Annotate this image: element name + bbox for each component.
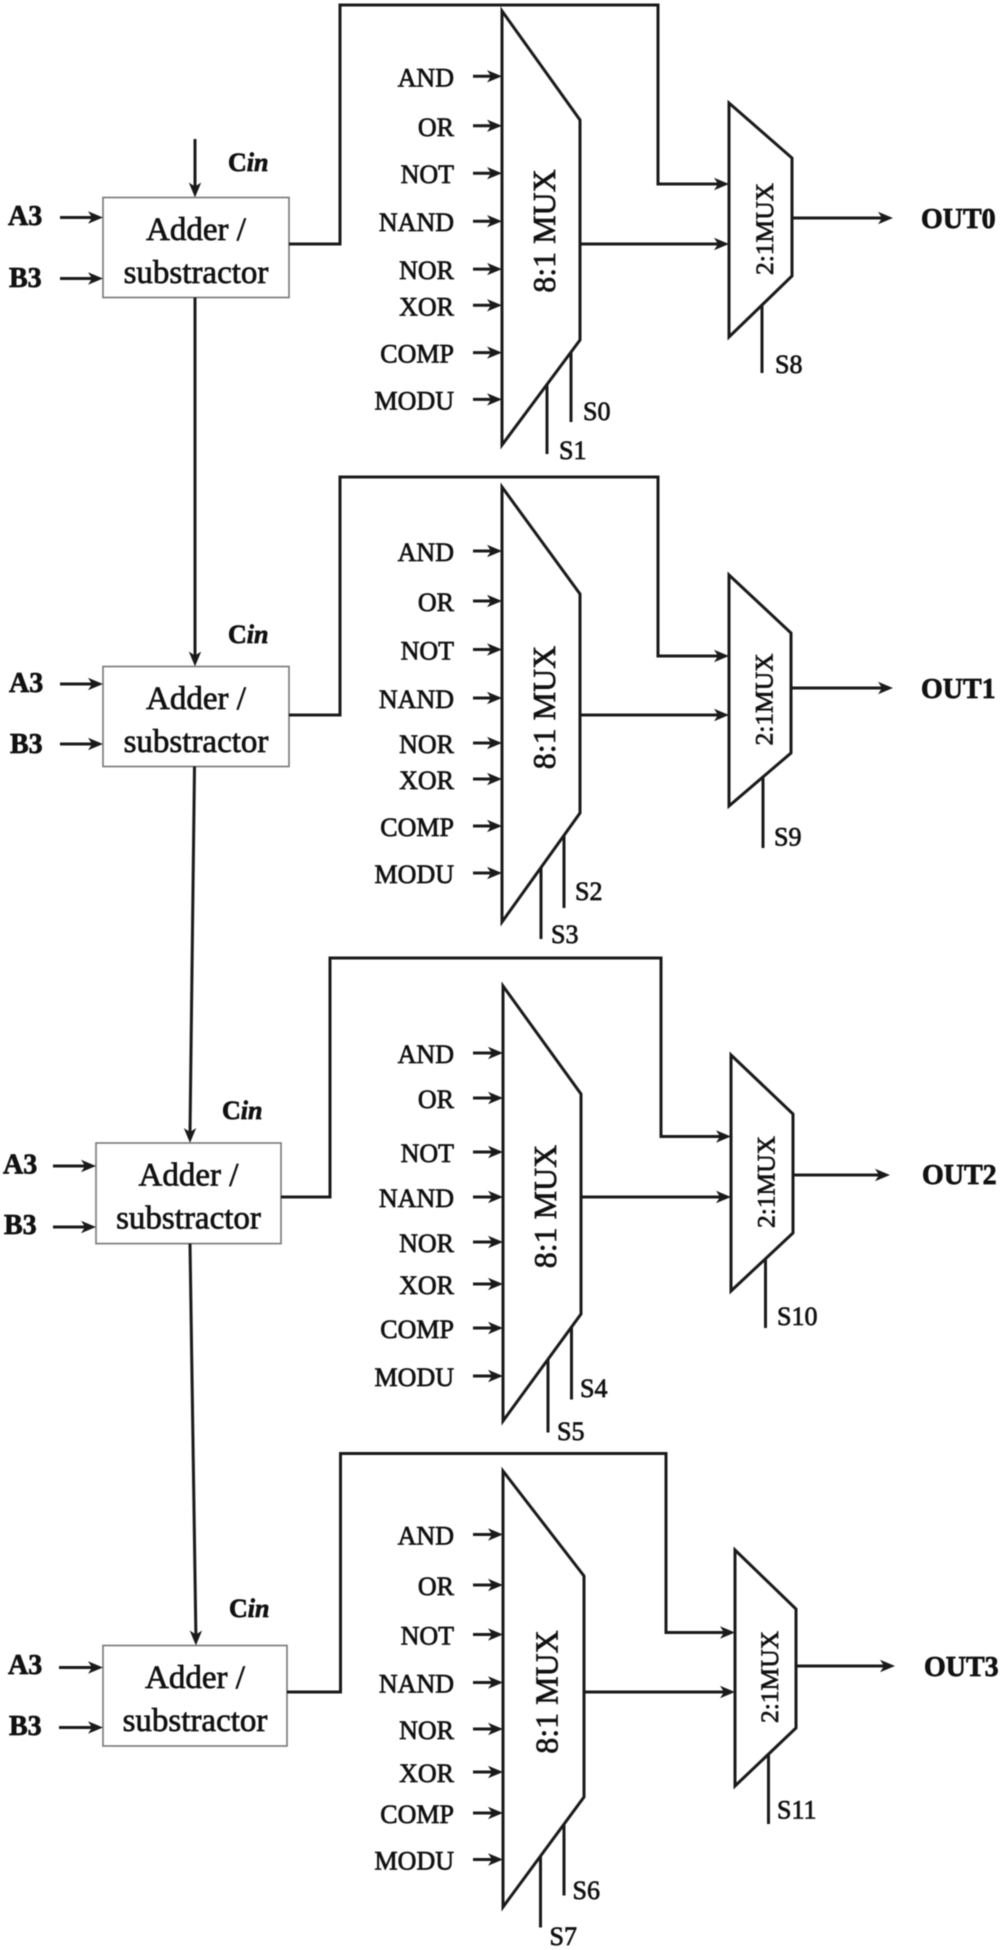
svg-text:2:1MUX: 2:1MUX [752, 1136, 781, 1228]
label Cin (block 2) [228, 620, 268, 649]
svg-text:COMP: COMP [380, 340, 454, 369]
label Cin (block 3) [222, 1096, 262, 1125]
label OR input (block 1) [418, 113, 455, 142]
svg-text:NOT: NOT [401, 1622, 455, 1651]
svg-text:S1: S1 [559, 436, 586, 465]
label OUT3 [924, 1652, 999, 1683]
svg-text:COMP: COMP [380, 1800, 454, 1829]
label XOR input (block 2) [399, 766, 455, 795]
svg-text:Cin: Cin [228, 620, 268, 649]
adder/subtractor U1 [103, 198, 289, 298]
label net S10 [777, 1302, 817, 1331]
label NOR input (block 1) [399, 256, 455, 285]
label Cin (block 1) [228, 148, 268, 177]
svg-text:Adder /: Adder / [146, 681, 247, 717]
wire AND arrow into 8:1 MUX (block 4) [473, 1528, 503, 1540]
svg-text:S11: S11 [777, 1796, 817, 1825]
svg-text:substractor: substractor [123, 1703, 268, 1739]
label NAND input (block 1) [379, 208, 454, 237]
2:1 MUX M6 [731, 1055, 793, 1291]
svg-text:B3: B3 [4, 1210, 37, 1241]
label net S3 [551, 920, 578, 949]
wire XOR arrow into 8:1 MUX (block 4) [473, 1766, 503, 1778]
svg-text:A3: A3 [9, 668, 43, 699]
wire COMP arrow into 8:1 MUX (block 1) [473, 346, 502, 358]
wire NAND arrow into 8:1 MUX (block 2) [473, 692, 502, 704]
wire OR arrow into 8:1 MUX (block 3) [473, 1092, 503, 1104]
label NOT input (block 3) [401, 1139, 455, 1168]
svg-text:S7: S7 [550, 1922, 577, 1950]
label OUT0 [921, 204, 996, 235]
8:1 MUX M1 [502, 11, 580, 445]
svg-text:A3: A3 [8, 201, 42, 232]
wire A3 arrow into U1 [60, 211, 103, 223]
svg-text:NAND: NAND [379, 208, 454, 237]
label net S5 [557, 1417, 584, 1446]
label MODU input (block 1) [375, 386, 455, 415]
8:1 MUX M7 [503, 1471, 584, 1907]
label A3 input (block 3) [3, 1150, 37, 1181]
label net S7 [550, 1922, 577, 1950]
wire 2:1 MUX output OUT3 [796, 1660, 895, 1672]
label A3 input (block 2) [9, 668, 43, 699]
wire select S10 into 2:1 MUX (block 3) [764, 1259, 767, 1328]
svg-text:MODU: MODU [375, 386, 455, 415]
label AND input (block 2) [398, 538, 454, 567]
label MODU input (block 2) [375, 860, 455, 889]
svg-text:S8: S8 [775, 350, 802, 379]
label XOR input (block 4) [399, 1759, 455, 1788]
wire NOR arrow into 8:1 MUX (block 1) [473, 263, 502, 275]
wire COMP arrow into 8:1 MUX (block 2) [473, 820, 502, 832]
svg-text:OUT2: OUT2 [922, 1160, 997, 1191]
label OUT2 [922, 1160, 997, 1191]
wire 8:1 MUX output to 2:1 MUX input 2 (block 4) [584, 1686, 735, 1698]
svg-text:AND: AND [398, 1040, 454, 1069]
svg-text:COMP: COMP [380, 1315, 454, 1344]
svg-text:XOR: XOR [399, 1271, 455, 1300]
wire MODU arrow into 8:1 MUX (block 3) [473, 1370, 503, 1382]
wire NAND arrow into 8:1 MUX (block 3) [473, 1191, 503, 1203]
wire select S11 into 2:1 MUX (block 4) [767, 1754, 770, 1824]
label NAND input (block 3) [379, 1184, 454, 1213]
svg-text:B3: B3 [10, 729, 43, 760]
label AND input (block 3) [398, 1040, 454, 1069]
label net S11 [777, 1796, 817, 1825]
svg-text:NOT: NOT [401, 637, 455, 666]
svg-text:S4: S4 [580, 1374, 607, 1403]
wire U4 output to 2:1 MUX input 1 [287, 1454, 735, 1693]
svg-text:NAND: NAND [379, 1184, 454, 1213]
svg-text:S2: S2 [575, 877, 602, 906]
wire select S5 into 8:1 MUX (block 3) [547, 1359, 550, 1432]
svg-text:A3: A3 [3, 1150, 37, 1181]
wire MODU arrow into 8:1 MUX (block 1) [473, 393, 502, 405]
wire AND arrow into 8:1 MUX (block 3) [473, 1047, 503, 1059]
wire 2:1 MUX output OUT1 [791, 682, 893, 694]
svg-text:OUT1: OUT1 [921, 674, 996, 705]
wire 8:1 MUX output to 2:1 MUX input 2 (block 3) [581, 1191, 731, 1203]
wire A3 arrow into U3 [53, 1160, 96, 1172]
wire A3 arrow into U2 [60, 678, 103, 690]
label OR input (block 4) [418, 1572, 455, 1601]
svg-text:S3: S3 [551, 920, 578, 949]
8:1 MUX M5 [503, 986, 581, 1421]
label B3 input (block 1) [9, 263, 42, 294]
label net S1 [559, 436, 586, 465]
label net S6 [573, 1876, 600, 1905]
label COMP input (block 1) [380, 340, 454, 369]
label B3 input (block 2) [10, 729, 43, 760]
wire OR arrow into 8:1 MUX (block 2) [473, 595, 502, 607]
wire B3 arrow into U1 [60, 272, 103, 284]
svg-text:A3: A3 [8, 1650, 42, 1681]
svg-text:NOR: NOR [399, 730, 455, 759]
svg-text:NAND: NAND [379, 1670, 454, 1699]
svg-text:OR: OR [418, 1572, 455, 1601]
label MODU input (block 4) [375, 1847, 455, 1876]
wire NOT arrow into 8:1 MUX (block 1) [473, 167, 502, 179]
svg-text:B3: B3 [9, 263, 42, 294]
svg-text:Adder /: Adder / [139, 1158, 240, 1194]
label net S0 [583, 397, 610, 426]
svg-text:MODU: MODU [375, 860, 455, 889]
wire B3 arrow into U4 [59, 1721, 103, 1733]
label OR input (block 3) [418, 1085, 455, 1114]
label A3 input (block 4) [8, 1650, 42, 1681]
svg-text:8:1 MUX: 8:1 MUX [526, 646, 562, 770]
svg-text:MODU: MODU [375, 1847, 455, 1876]
label COMP input (block 4) [380, 1800, 454, 1829]
svg-text:NOT: NOT [401, 1139, 455, 1168]
wire select S9 into 2:1 MUX (block 2) [762, 777, 765, 848]
svg-text:NOT: NOT [401, 160, 455, 189]
label NAND input (block 4) [379, 1670, 454, 1699]
wire U1 output to 2:1 MUX input 1 [289, 5, 729, 244]
8:1 MUX M3 [502, 487, 580, 922]
adder/subtractor U2 [103, 667, 289, 767]
wire carry from U1 to Cin of U2 [189, 298, 201, 667]
label OR input (block 2) [418, 588, 455, 617]
svg-text:AND: AND [398, 1522, 454, 1551]
svg-text:Cin: Cin [228, 148, 268, 177]
wire NOT arrow into 8:1 MUX (block 4) [473, 1628, 503, 1640]
svg-text:OR: OR [418, 113, 455, 142]
wire OR arrow into 8:1 MUX (block 4) [473, 1579, 503, 1591]
svg-text:S9: S9 [774, 823, 801, 852]
svg-text:Cin: Cin [222, 1096, 262, 1125]
svg-text:B3: B3 [9, 1711, 42, 1742]
wire NAND arrow into 8:1 MUX (block 1) [473, 215, 502, 227]
label AND input (block 1) [398, 63, 454, 92]
svg-text:OUT3: OUT3 [924, 1652, 999, 1683]
label XOR input (block 1) [399, 292, 455, 321]
svg-text:Adder /: Adder / [146, 212, 247, 248]
svg-text:OUT0: OUT0 [921, 204, 996, 235]
adder/subtractor U4 [103, 1646, 287, 1747]
svg-text:NOR: NOR [399, 1716, 455, 1745]
wire select S3 into 8:1 MUX (block 2) [540, 868, 543, 940]
label COMP input (block 3) [380, 1315, 454, 1344]
svg-text:Cin: Cin [229, 1594, 269, 1623]
wire MODU arrow into 8:1 MUX (block 2) [473, 867, 502, 879]
wire 8:1 MUX output to 2:1 MUX input 2 (block 1) [580, 238, 729, 250]
svg-text:2:1MUX: 2:1MUX [750, 653, 779, 745]
svg-text:AND: AND [398, 63, 454, 92]
label net S9 [774, 823, 801, 852]
adder/subtractor U3 [96, 1143, 281, 1244]
wire XOR arrow into 8:1 MUX (block 2) [473, 773, 502, 785]
wire select S8 into 2:1 MUX (block 1) [761, 305, 764, 373]
label NOR input (block 4) [399, 1716, 455, 1745]
wire U3 output to 2:1 MUX input 1 [281, 958, 731, 1197]
svg-text:8:1 MUX: 8:1 MUX [526, 169, 562, 293]
svg-text:S0: S0 [583, 397, 610, 426]
2:1 MUX M8 [735, 1550, 796, 1786]
wire select S2 into 8:1 MUX (block 2) [563, 835, 566, 908]
wire AND arrow into 8:1 MUX (block 1) [473, 70, 502, 82]
wire select S1 into 8:1 MUX (block 1) [546, 384, 549, 454]
wire 2:1 MUX output OUT0 [792, 212, 893, 224]
wire NOR arrow into 8:1 MUX (block 4) [473, 1723, 503, 1735]
label OUT1 [921, 674, 996, 705]
label XOR input (block 3) [399, 1271, 455, 1300]
svg-text:substractor: substractor [124, 255, 269, 291]
wire select S0 into 8:1 MUX (block 1) [570, 352, 573, 422]
label MODU input (block 3) [375, 1363, 455, 1392]
svg-text:AND: AND [398, 538, 454, 567]
wire NAND arrow into 8:1 MUX (block 4) [473, 1676, 503, 1688]
svg-text:substractor: substractor [116, 1201, 261, 1237]
wire carry from U2 to Cin of U3 [184, 767, 196, 1144]
label NOT input (block 4) [401, 1622, 455, 1651]
svg-text:8:1 MUX: 8:1 MUX [528, 1630, 564, 1754]
wire XOR arrow into 8:1 MUX (block 3) [473, 1278, 503, 1290]
svg-text:NAND: NAND [379, 685, 454, 714]
2:1 MUX M4 [729, 575, 791, 806]
label COMP input (block 2) [380, 813, 454, 842]
wire select S6 into 8:1 MUX (block 4) [563, 1824, 566, 1895]
wire XOR arrow into 8:1 MUX (block 1) [473, 299, 502, 311]
wire Cin0 into adder U1 [189, 139, 201, 198]
svg-text:NOR: NOR [399, 1229, 455, 1258]
svg-text:S6: S6 [573, 1876, 600, 1905]
label B3 input (block 4) [9, 1711, 42, 1742]
wire 2:1 MUX output OUT2 [793, 1169, 890, 1181]
label B3 input (block 3) [4, 1210, 37, 1241]
wire 8:1 MUX output to 2:1 MUX input 2 (block 2) [580, 709, 729, 721]
svg-text:XOR: XOR [399, 292, 455, 321]
label NAND input (block 2) [379, 685, 454, 714]
svg-text:XOR: XOR [399, 766, 455, 795]
svg-text:2:1MUX: 2:1MUX [755, 1631, 784, 1723]
label NOT input (block 2) [401, 637, 455, 666]
wire MODU arrow into 8:1 MUX (block 4) [473, 1853, 503, 1865]
svg-text:S5: S5 [557, 1417, 584, 1446]
svg-text:8:1 MUX: 8:1 MUX [527, 1145, 563, 1269]
label AND input (block 4) [398, 1522, 454, 1551]
svg-text:NOR: NOR [399, 256, 455, 285]
svg-text:substractor: substractor [124, 724, 269, 760]
wire COMP arrow into 8:1 MUX (block 4) [473, 1807, 503, 1819]
svg-text:S10: S10 [777, 1302, 817, 1331]
wire select S7 into 8:1 MUX (block 4) [539, 1856, 542, 1927]
wire B3 arrow into U2 [60, 738, 103, 750]
label net S4 [580, 1374, 607, 1403]
wire A3 arrow into U4 [59, 1661, 103, 1673]
svg-text:MODU: MODU [375, 1363, 455, 1392]
wire NOR arrow into 8:1 MUX (block 2) [473, 737, 502, 749]
svg-text:2:1MUX: 2:1MUX [750, 183, 779, 275]
label net S2 [575, 877, 602, 906]
2:1 MUX M2 [729, 103, 792, 337]
label NOT input (block 1) [401, 160, 455, 189]
wire AND arrow into 8:1 MUX (block 2) [473, 545, 502, 557]
svg-text:XOR: XOR [399, 1759, 455, 1788]
wire U2 output to 2:1 MUX input 1 [289, 477, 729, 715]
svg-text:OR: OR [418, 1085, 455, 1114]
wire OR arrow into 8:1 MUX (block 1) [473, 120, 502, 132]
wire COMP arrow into 8:1 MUX (block 3) [473, 1322, 503, 1334]
wire NOT arrow into 8:1 MUX (block 2) [473, 643, 502, 655]
label net S8 [775, 350, 802, 379]
wire B3 arrow into U3 [53, 1221, 96, 1233]
svg-text:COMP: COMP [380, 813, 454, 842]
label NOR input (block 2) [399, 730, 455, 759]
label Cin (block 4) [229, 1594, 269, 1623]
wire carry from U3 to Cin of U4 [190, 1244, 202, 1646]
svg-text:OR: OR [418, 588, 455, 617]
wire select S4 into 8:1 MUX (block 3) [570, 1327, 573, 1399]
label A3 input (block 1) [8, 201, 42, 232]
wire NOT arrow into 8:1 MUX (block 3) [473, 1146, 503, 1158]
wire NOR arrow into 8:1 MUX (block 3) [473, 1236, 503, 1248]
label NOR input (block 3) [399, 1229, 455, 1258]
svg-text:Adder /: Adder / [145, 1660, 246, 1696]
